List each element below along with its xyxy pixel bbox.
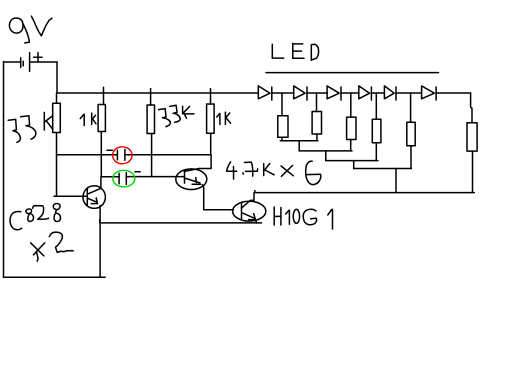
wire drop to R5 bbox=[410, 93, 412, 122]
transistor Q1 emitter stroke bbox=[185, 178, 201, 185]
resistor R5 4.7K bbox=[407, 122, 415, 146]
wire R4 bottom bbox=[375, 143, 377, 161]
transistor Q3 collector stroke bbox=[242, 200, 255, 208]
capacitor C1 red circle bbox=[113, 147, 133, 164]
right bus wire bbox=[255, 191, 474, 193]
diode D6 bbox=[422, 86, 437, 100]
label 33K (RA) bbox=[8, 112, 53, 142]
label x2 bbox=[31, 232, 74, 261]
green cap wire left segment bbox=[101, 176, 119, 178]
wire top bus corner down to R6 bbox=[471, 93, 472, 123]
wire RA bottom to Q2 base bbox=[56, 133, 58, 197]
transistor Q2 circle bbox=[83, 186, 105, 209]
label 1K (RD) bbox=[217, 112, 231, 124]
transistor Q1 ellipse bbox=[176, 169, 207, 190]
staircase vertical 1-2 bbox=[298, 141, 300, 151]
transistor Q1 base bar bbox=[184, 170, 186, 183]
transistor Q2 emitter stroke bbox=[87, 198, 97, 204]
wire battery left bbox=[4, 61, 21, 63]
resistor R1 4.7K bbox=[278, 116, 288, 138]
staircase vertical to right bus bbox=[395, 169, 397, 193]
resistor RA 33K top wire bbox=[56, 93, 58, 103]
label H10G1 bbox=[274, 207, 332, 229]
transistor Q3 H1061 ellipse bbox=[233, 201, 266, 221]
resistor R6 4.7K bbox=[467, 123, 477, 151]
resistor RC 33K bbox=[147, 105, 154, 134]
transistor Q1 collector stroke bbox=[185, 169, 200, 172]
capacitor C2 left plate bbox=[118, 173, 120, 184]
wire R2 bottom bbox=[316, 134, 318, 141]
staircase level 4 bbox=[354, 168, 412, 170]
label C828 bbox=[10, 204, 60, 230]
wire drop to R1 bbox=[281, 93, 283, 116]
staircase level 2 bbox=[299, 150, 352, 152]
red cap wire right segment bbox=[125, 154, 211, 156]
transistor Q3 base bar bbox=[241, 202, 243, 218]
wire battery right bbox=[30, 61, 57, 63]
staircase level 3 bbox=[326, 160, 378, 162]
wire Q3 collector up bbox=[253, 193, 255, 201]
staircase vertical 3-4 bbox=[353, 161, 355, 169]
battery B1 negative bar bbox=[21, 58, 24, 68]
wire R5 bottom bbox=[410, 146, 412, 169]
battery B1 positive bar bbox=[29, 53, 31, 72]
transistor Q3 emitter stroke bbox=[242, 213, 257, 223]
common emitter wire bbox=[100, 220, 262, 223]
capacitor C2 right plate bbox=[125, 173, 127, 185]
wire R6 bottom to right bus bbox=[472, 151, 474, 193]
diode D4 bbox=[359, 86, 372, 100]
diode D2 bbox=[294, 86, 307, 100]
capacitor C1 minus sign bbox=[107, 149, 112, 151]
staircase vertical 2-3 bbox=[325, 151, 327, 161]
resistor R3 4.7K bbox=[347, 117, 356, 139]
left border wire bbox=[3, 62, 5, 278]
wire Q1 emitter to H1061 base bbox=[204, 209, 234, 211]
transistor Q2 base bar bbox=[86, 188, 88, 206]
resistor R4 4.7K bbox=[372, 119, 381, 143]
diode D1 bbox=[258, 86, 272, 100]
resistor RB 1k top wire bbox=[103, 87, 105, 104]
transistor Q2 collector stroke bbox=[87, 188, 101, 194]
top bus wire segments between diodes bbox=[57, 92, 471, 94]
resistor RC 33K top wire bbox=[150, 89, 152, 105]
wire R3 bottom bbox=[350, 140, 352, 151]
capacitor C1 left plate bbox=[116, 150, 118, 160]
resistor RB 1k bbox=[98, 105, 105, 132]
wire drop to R3 bbox=[350, 93, 352, 117]
capacitor C2 minus sign bbox=[135, 171, 140, 173]
label 4.7K x 6 bbox=[227, 161, 321, 184]
LED underline bbox=[266, 72, 439, 74]
diode D3 bbox=[327, 86, 341, 100]
label 9V bbox=[9, 16, 52, 43]
green cap wire right segment bbox=[126, 176, 184, 178]
wire Q2 emitter down bbox=[100, 206, 105, 277]
bottom bus wire bbox=[4, 276, 106, 278]
wire Q2 base bbox=[54, 195, 87, 197]
diode D5 bbox=[384, 86, 396, 100]
wire RB junction down to Q2 collector bbox=[100, 177, 102, 189]
staircase level 1 bbox=[280, 140, 318, 142]
resistor RD 1K top wire bbox=[210, 89, 212, 104]
red cap wire left segment bbox=[57, 154, 118, 156]
resistor R2 4.7K bbox=[312, 112, 321, 135]
capacitor C2 green circle bbox=[113, 170, 135, 187]
wire drop to R2 bbox=[316, 93, 318, 112]
wire RB bottom to green cap line bbox=[100, 132, 102, 177]
wire battery to top bus bbox=[56, 62, 58, 93]
wire RC bottom to green line bbox=[151, 134, 153, 177]
capacitor C1 right plate bbox=[124, 149, 126, 160]
resistor RA 33K bbox=[53, 103, 61, 132]
battery plus sign bbox=[34, 53, 42, 62]
label 1k (RB) bbox=[80, 113, 96, 125]
resistor RD 1K bbox=[207, 104, 215, 133]
wire Q1 emitter down bbox=[202, 185, 204, 210]
label LED bbox=[272, 43, 318, 60]
wire Q1 collector step bbox=[199, 155, 211, 169]
wire R1 bottom bbox=[281, 137, 283, 141]
wire drop to R4 bbox=[375, 93, 377, 119]
wire RD bottom to red line bbox=[210, 133, 212, 155]
label 33K (RC) bbox=[159, 105, 195, 126]
